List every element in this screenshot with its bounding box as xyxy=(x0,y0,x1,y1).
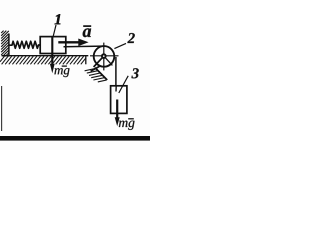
pulley spoke lower-left xyxy=(94,56,104,67)
label mg3 xyxy=(119,119,135,130)
label 1 xyxy=(55,14,61,24)
gravity arrow mg1 xyxy=(50,37,55,73)
pulley crosshair vertical xyxy=(103,43,105,71)
spring xyxy=(9,41,40,48)
wall left hatched strip xyxy=(1,31,9,57)
acceleration arrow a xyxy=(58,39,88,47)
label mg1 xyxy=(54,66,69,77)
leader line 3 xyxy=(119,76,128,93)
rope block1 to pulley xyxy=(64,45,104,48)
block 3 xyxy=(111,86,127,114)
leader line 2 xyxy=(114,43,126,48)
leader line 1 xyxy=(53,25,56,38)
rope pulley to block 3 xyxy=(115,57,117,86)
bottom bar xyxy=(0,136,150,141)
bracket boundary lines xyxy=(91,62,107,71)
pulley hub xyxy=(101,53,107,59)
label a xyxy=(83,26,91,37)
label 3 xyxy=(131,68,138,78)
pulley bracket hatched support xyxy=(85,68,107,82)
rope end inside block 3 xyxy=(115,86,117,92)
pulley crosshair horizontal xyxy=(90,55,119,57)
block 1 xyxy=(40,37,66,54)
floor hatch band xyxy=(0,56,86,64)
pulley 2 wheel xyxy=(94,46,115,67)
floor right edge xyxy=(85,56,87,65)
wall right edge line xyxy=(8,34,10,57)
label 2 xyxy=(127,33,134,43)
gravity arrow mg3 xyxy=(115,100,120,127)
left border line xyxy=(1,86,3,131)
floor top line xyxy=(2,55,89,57)
pulley spoke lower-right xyxy=(104,56,113,65)
